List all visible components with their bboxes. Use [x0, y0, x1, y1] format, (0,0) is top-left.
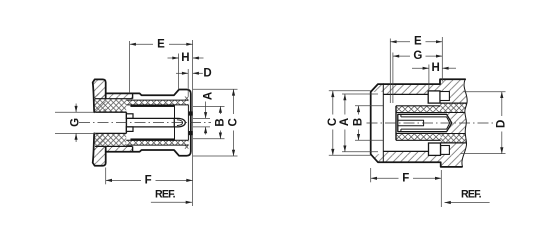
left connector shell wall hatch band bottom: [95, 146, 133, 151]
dim D dimension line: [176, 72, 188, 74]
left contact shoulder square top: [126, 114, 133, 119]
dim E2 arrow left: [390, 40, 396, 43]
dim B2 extension line bottom: [355, 139, 383, 141]
left REF. leader line: [151, 201, 192, 203]
dim H arrow left: [172, 57, 178, 60]
dim B2 arrow top: [357, 106, 360, 112]
right socket contact inner top: [401, 116, 447, 118]
dim A arrow top: [204, 112, 207, 118]
left insulator support top: [131, 105, 175, 107]
left shell/nut junction tick top: [132, 93, 134, 98]
right nut inner wall top: [383, 93, 428, 95]
left flange/body step bottom: [105, 146, 107, 151]
dim C arrow top: [232, 89, 235, 95]
left connector gasket crosshatch band top: [127, 100, 188, 105]
dim H2 dimension line: [412, 67, 429, 69]
right insulator crosshatch bottom: [396, 134, 441, 141]
dim E arrow left: [130, 43, 136, 46]
left contact shoulder square bottom: [126, 127, 133, 131]
svg-text:G: G: [413, 50, 422, 62]
dim A2 extension line bottom: [342, 151, 378, 153]
left insulator support bottom: [131, 139, 175, 141]
svg-text:D: D: [495, 120, 507, 128]
dim F2 right extension line: [440, 170, 442, 207]
left bore bottom edge: [94, 132, 126, 134]
svg-text:C: C: [327, 118, 339, 126]
left connector braid crosshatch block top: [94, 99, 126, 112]
svg-text:H: H: [431, 62, 439, 74]
dim H dimension line: [168, 57, 179, 59]
right nut outline: [371, 84, 462, 167]
left REF. arrow: [186, 201, 192, 204]
dim C extension line top: [193, 88, 238, 90]
left cavity front wall bottom: [174, 127, 176, 139]
dim B extension line bottom: [193, 138, 225, 140]
right nut inner wall bottom: [383, 150, 428, 152]
dim H2 arrow left: [423, 67, 429, 70]
right retention block top: [428, 91, 440, 103]
dim A2 arrow bottom: [343, 146, 346, 152]
dim G2 arrow left: [393, 55, 399, 58]
left gasket band bottom upper edge: [126, 139, 188, 141]
right nut top edge: [383, 79, 465, 84]
dim B2 extension line top: [355, 105, 383, 107]
dim E dimension line: [130, 43, 153, 45]
right insulator bore top: [396, 112, 465, 114]
dim D2 dimension line: [501, 92, 503, 116]
right socket contact outer: [398, 114, 452, 131]
left connector front gasket crosshatch bottom: [185, 145, 189, 149]
svg-text:E: E: [414, 36, 422, 48]
dim F left extension line: [105, 168, 107, 185]
right figure centerline: [367, 122, 497, 124]
right socket mouth step bottom: [400, 129, 402, 132]
left insulator front face: [125, 112, 127, 133]
dim G2 dimension line: [393, 55, 410, 57]
left connector mounting-flange hatch fill lower: [93, 133, 106, 165]
dim F2 dimension line: [371, 177, 399, 179]
dim D arrow right: [193, 72, 199, 75]
right insulator bore bottom: [396, 133, 465, 135]
dim E left extension line: [129, 41, 131, 93]
dim H arrow right: [193, 57, 199, 60]
left connector shell wall hatch band top: [95, 93, 133, 98]
left gasket band bottom lower edge: [126, 144, 188, 146]
dim A arrow bottom: [204, 127, 207, 133]
svg-text:D: D: [203, 67, 211, 79]
right REF. arrow: [445, 201, 451, 204]
dim G dimension line: [75, 104, 77, 113]
dim D arrow left: [182, 72, 188, 75]
dim E2 arrow right: [436, 40, 442, 43]
dim H2 arrow right: [442, 67, 448, 70]
right rear shell hatch top: [440, 79, 467, 103]
dim F2 arrow left: [371, 177, 377, 180]
dim B2 arrow bottom: [357, 134, 360, 140]
right retention block bottom: [429, 143, 441, 155]
dim C2 arrow top: [331, 91, 334, 97]
right dielectric hatch around socket tip: [447, 113, 467, 134]
dim F arrow right: [186, 179, 192, 182]
dim F2 left extension line: [370, 168, 372, 182]
right shell groove notch top: [440, 92, 449, 101]
left front slot notch top: [189, 112, 192, 115]
left gasket band top lower edge: [126, 104, 188, 106]
dim G2 left extension line: [392, 53, 394, 104]
dim F2 arrow right: [435, 177, 441, 180]
dim H2 left extension line: [428, 65, 430, 91]
dim B2 dimension line: [358, 106, 360, 115]
dim A2 arrow top: [343, 94, 346, 100]
left front slot notch bottom: [189, 131, 192, 134]
svg-text:F: F: [402, 172, 409, 184]
dim D2 arrow top: [500, 92, 503, 98]
dim G extension line top: [55, 111, 96, 113]
left shell/nut junction tick bottom: [132, 146, 134, 151]
right rear insulator step top: [440, 102, 467, 104]
dim A dimension line: [205, 102, 207, 119]
right rear insulator step bottom: [441, 142, 467, 144]
svg-text:B: B: [353, 118, 365, 126]
left front rim inner edge: [187, 105, 189, 140]
left center pin body: [126, 118, 174, 127]
left connector body outline: [93, 79, 191, 165]
right nut wall hatch band top: [371, 84, 440, 94]
dim A2 extension line top: [342, 93, 378, 95]
dim E arrow right: [186, 43, 192, 46]
right insulator top edge: [396, 105, 440, 107]
dim D2 arrow bottom: [500, 147, 503, 153]
left shell wall inner edge bottom: [95, 145, 133, 147]
dim C arrow bottom: [232, 150, 235, 156]
svg-text:H: H: [181, 52, 189, 64]
left flange/body step top: [105, 93, 107, 98]
left center pin joint: [173, 118, 175, 127]
svg-text:G: G: [70, 118, 82, 127]
left shell wall inner edge top: [95, 98, 133, 100]
dim E right extension line: [192, 40, 194, 206]
right rear shell hatch bottom: [441, 143, 467, 167]
left center pin bullet inner line: [177, 120, 182, 126]
dim A extension line top: [193, 117, 210, 119]
svg-text:E: E: [157, 38, 165, 50]
dim E2 right extension line: [441, 37, 443, 82]
svg-text:C: C: [228, 118, 240, 126]
right socket contact inner bottom: [401, 128, 447, 130]
dim G extension line bottom: [55, 132, 96, 134]
dim C2 extension line bottom: [329, 154, 371, 156]
dim D2 extension line bottom: [461, 153, 506, 155]
right insulator front face: [395, 106, 397, 141]
right insulator bottom edge: [396, 139, 441, 141]
right rear crosshatch top: [440, 103, 467, 112]
dim D left extension line: [187, 69, 189, 97]
right shell groove notch bottom: [441, 146, 450, 155]
right nut left face inner line: [382, 84, 384, 162]
left gasket band top upper edge: [126, 99, 188, 101]
dim B dimension line: [219, 106, 221, 114]
left connector mounting-flange hatch fill upper: [93, 79, 106, 112]
dim C2 dimension line: [332, 91, 334, 115]
svg-text:F: F: [145, 174, 152, 186]
left cavity front wall top: [174, 107, 176, 119]
dim C2 extension line top: [329, 90, 371, 92]
dim A2 dimension line: [344, 94, 346, 115]
dim B extension line top: [193, 105, 225, 107]
left center pin bullet tip: [174, 118, 185, 127]
dim E2 left extension line: [389, 39, 391, 104]
right socket mouth step top: [400, 114, 402, 117]
dim G2 arrow right: [436, 55, 442, 58]
dim B arrow bottom: [219, 133, 222, 139]
dim E2 dimension line: [390, 41, 410, 43]
dim A extension line bottom: [193, 126, 210, 128]
right socket inner cone: [447, 117, 450, 129]
dim G arrow bottom: [75, 133, 78, 139]
right break line: [462, 79, 467, 167]
left connector braid crosshatch block bottom: [94, 133, 126, 146]
right socket slot tongue: [398, 120, 424, 125]
dim F arrow left: [106, 179, 112, 182]
right insulator crosshatch top: [396, 106, 440, 113]
left bore top edge: [94, 111, 126, 113]
right rear crosshatch bottom: [441, 134, 467, 143]
dim C dimension line: [233, 89, 235, 114]
svg-text:B: B: [214, 118, 226, 126]
svg-text:REF.: REF.: [155, 189, 176, 201]
right nut wall hatch band bottom: [371, 151, 441, 162]
dim C extension line bottom: [193, 155, 238, 157]
dim B arrow top: [219, 106, 222, 112]
left connector gasket crosshatch band bottom: [127, 140, 188, 145]
dim D2 extension line top: [464, 91, 506, 93]
svg-text:A: A: [339, 118, 351, 126]
left connector front gasket crosshatch top: [185, 97, 189, 101]
svg-text:A: A: [202, 92, 214, 100]
dim G arrow top: [75, 106, 78, 112]
svg-text:REF.: REF.: [461, 189, 482, 201]
right REF. leader line: [445, 202, 490, 204]
dim C2 arrow bottom: [331, 149, 334, 155]
left figure centerline: [79, 122, 211, 124]
dim H left extension line: [178, 54, 180, 90]
dim F dimension line: [106, 179, 141, 181]
